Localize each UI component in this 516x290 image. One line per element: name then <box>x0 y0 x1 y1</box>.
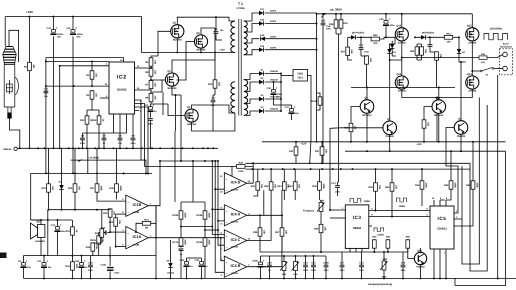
junction <box>45 85 47 87</box>
electrolytic capacitor C20 <box>180 258 194 268</box>
wire Q11 collector <box>420 248 422 252</box>
wire IC4A in+ <box>212 161 224 209</box>
wire vertical x160 <box>156 161 160 206</box>
wire IC2 pin 1 <box>46 61 109 63</box>
wire R52 leads <box>375 169 377 210</box>
junction <box>262 168 264 170</box>
junction <box>96 172 98 174</box>
wire Q4 gate <box>168 104 185 116</box>
junction <box>252 162 254 164</box>
junction <box>211 160 213 162</box>
wire R32 leads <box>71 220 73 256</box>
electrolytic capacitor C13 <box>51 223 66 233</box>
junction <box>170 277 172 279</box>
wire link rail y252 <box>260 251 408 253</box>
wire <box>180 251 182 279</box>
wire IC3 bottom pins <box>350 248 362 252</box>
wire link rail y256 <box>261 255 327 257</box>
wire D6 leads <box>170 240 172 278</box>
square wave symbol mains <box>484 34 507 40</box>
junction <box>313 277 315 279</box>
wire mid rail B <box>262 141 506 143</box>
junction <box>45 172 47 174</box>
junction <box>280 81 282 83</box>
svg-text:IC4 A: IC4 A <box>231 213 241 217</box>
wire mid rail C <box>345 150 506 152</box>
wire VR2 leads <box>383 252 385 278</box>
capacitor C <box>428 45 433 47</box>
junction <box>103 147 105 149</box>
junction <box>282 168 284 170</box>
junction <box>72 147 74 149</box>
svg-text:100: 100 <box>447 41 452 44</box>
junction <box>116 172 118 174</box>
junction <box>387 251 389 253</box>
wire C28 leads <box>90 256 92 279</box>
resistor R21b <box>90 236 104 244</box>
square wave symbol 100Hz <box>350 199 361 203</box>
resistor R13 <box>92 116 104 124</box>
resistor R29 <box>314 224 326 232</box>
wire divider top link <box>181 201 205 203</box>
svg-text:10k: 10k <box>113 211 116 216</box>
svg-text:CD4013: CD4013 <box>437 228 447 231</box>
svg-text:R14: R14 <box>144 219 149 222</box>
diode D16 <box>259 21 264 25</box>
svg-text:100k: 100k <box>207 212 210 218</box>
resistor R31 <box>289 147 298 155</box>
svg-text:10k: 10k <box>118 220 121 225</box>
svg-text:+: + <box>26 259 28 263</box>
wire IC4C out <box>247 190 271 240</box>
wire <box>204 219 206 238</box>
junction <box>43 255 45 257</box>
wire bottom ground rail <box>24 277 516 279</box>
junction <box>74 172 76 174</box>
junction <box>37 147 39 149</box>
svg-text:C13: C13 <box>51 224 56 227</box>
svg-text:1N4148: 1N4148 <box>270 108 278 111</box>
wire P2 leads <box>295 256 297 278</box>
wire R48 leads <box>373 239 375 252</box>
capacitor C9 <box>211 96 216 107</box>
resistor R19 <box>103 209 115 217</box>
wire to D17 <box>244 13 260 21</box>
junction <box>180 160 182 162</box>
junction <box>471 70 473 72</box>
svg-text:D9 PR150A: D9 PR150A <box>422 32 435 35</box>
resistor R40 <box>371 34 379 45</box>
wire R16 leads <box>74 148 76 209</box>
wire C17 to rail <box>341 252 343 256</box>
wire IC1B in- <box>116 213 126 215</box>
svg-text:C24b: C24b <box>101 263 107 266</box>
wire Q10 collector <box>438 88 440 100</box>
junction <box>293 168 295 170</box>
wire Q11 base <box>408 248 415 258</box>
svg-text:400V: 400V <box>326 28 331 31</box>
wire IC4B in- <box>215 189 224 272</box>
junction <box>375 210 377 212</box>
wire R32b leads <box>317 93 320 110</box>
svg-text:230V/50Hz: 230V/50Hz <box>490 28 504 31</box>
wire right bus 2 <box>470 105 487 271</box>
capacitor C8 <box>131 134 137 145</box>
junction <box>186 277 188 279</box>
wire C17 leads <box>341 256 343 278</box>
svg-text:100: 100 <box>153 96 156 101</box>
wire R17 leads <box>96 148 98 199</box>
wire long vertical x60 <box>59 66 61 149</box>
svg-text:10k: 10k <box>426 122 429 127</box>
svg-text:R16b: R16b <box>173 214 179 217</box>
junction <box>321 168 323 170</box>
switch S1 <box>480 70 482 72</box>
junction <box>192 147 194 149</box>
svg-text:47k: 47k <box>75 264 78 269</box>
wire +12V to control rail <box>310 140 311 163</box>
comparator IC4A <box>224 205 246 226</box>
wire R49 leads <box>387 239 389 252</box>
svg-text:+12V: +12V <box>26 10 33 14</box>
capacitor C15 <box>311 261 317 272</box>
junction <box>72 16 74 18</box>
svg-text:100: 100 <box>153 70 156 75</box>
junction <box>472 141 474 143</box>
svg-text:R26: R26 <box>253 231 258 234</box>
junction <box>201 277 203 279</box>
wire R53 leads <box>391 169 393 216</box>
svg-text:10k: 10k <box>262 230 265 235</box>
junction <box>68 147 70 149</box>
svg-text:Ausgangsspannung: Ausgangsspannung <box>368 283 393 286</box>
wire R37 leads <box>321 142 323 164</box>
junction <box>82 147 84 149</box>
svg-text:10n: 10n <box>220 29 224 32</box>
wire C16 to rail <box>361 252 363 256</box>
junction <box>147 173 149 175</box>
junction <box>119 147 121 149</box>
junction <box>436 97 438 99</box>
junction <box>113 147 115 149</box>
wire C10 bottom lead <box>53 36 55 149</box>
wire IC3 pin left 2 <box>330 217 345 219</box>
wire C7 top lead <box>215 17 217 31</box>
svg-text:R16: R16 <box>68 187 73 190</box>
wire R45 leads <box>454 142 473 226</box>
wire output node L <box>402 57 479 59</box>
PWM controller IC2 SG3525 <box>109 62 135 114</box>
svg-text:R21b: R21b <box>90 239 96 242</box>
resistor R37 <box>315 147 327 155</box>
svg-text:1N4148: 1N4148 <box>270 70 278 73</box>
wire R15 leads <box>48 148 50 209</box>
junction <box>340 168 342 170</box>
junction <box>159 160 161 162</box>
svg-text:310F4: 310F4 <box>270 10 277 13</box>
wire Q10 base <box>424 107 432 120</box>
diode D9 <box>421 35 426 39</box>
resistor R21 <box>251 182 263 190</box>
wire C13 leads <box>305 256 307 278</box>
junction <box>175 94 177 96</box>
wire D7 leads <box>61 148 63 209</box>
wire Q4 source return <box>192 113 235 131</box>
junction <box>445 277 447 279</box>
junction <box>351 168 353 170</box>
wire cap leads <box>430 37 437 52</box>
svg-text:R20: R20 <box>109 221 114 224</box>
wire R33 leads <box>71 256 73 279</box>
diode D17 <box>259 11 264 15</box>
wire R6 net <box>151 68 160 80</box>
svg-text:+: + <box>204 258 206 262</box>
transistor Q13 <box>395 25 408 45</box>
flip-flop IC5 CD4013 <box>430 206 454 249</box>
wire control rail Bb <box>246 168 471 170</box>
svg-text:R47: R47 <box>341 50 346 53</box>
wire C7 bottom lead <box>216 34 222 40</box>
wire to socket pin 1 <box>487 55 503 58</box>
junction <box>132 147 134 149</box>
electrolytic capacitor C27 <box>285 105 300 115</box>
svg-text:R42: R42 <box>410 50 415 53</box>
wire R2 bottom lead <box>29 71 31 149</box>
junction <box>215 16 217 18</box>
junction <box>316 38 318 40</box>
junction <box>458 36 460 38</box>
wire IC1A out long <box>148 237 224 239</box>
svg-text:100n: 100n <box>364 51 369 54</box>
svg-text:10k: 10k <box>95 245 98 250</box>
trimmer VR2 <box>380 258 388 270</box>
wire IC4C in+ <box>212 209 224 234</box>
junction <box>211 226 213 228</box>
capacitor C7 <box>214 28 219 33</box>
resistor R53 <box>385 183 397 191</box>
capacitor C3 <box>80 134 86 145</box>
junction <box>78 147 80 149</box>
svg-text:100u: 100u <box>390 24 396 27</box>
wire ref leader <box>78 160 82 162</box>
wire C30 leads <box>274 82 282 105</box>
wire R40 out <box>380 37 396 39</box>
wire VR1 leads <box>320 200 322 224</box>
svg-text:10u: 10u <box>27 266 31 269</box>
resistor R24 <box>288 182 300 190</box>
svg-text:10k: 10k <box>94 93 97 98</box>
resistor R47 <box>341 47 353 55</box>
capacitor C31 <box>44 87 49 98</box>
wire down <box>109 247 111 266</box>
wire C10 top lead <box>53 17 55 30</box>
svg-text:1N4148: 1N4148 <box>167 272 175 275</box>
svg-text:R21: R21 <box>251 185 256 188</box>
svg-text:Q11: Q11 <box>417 249 422 252</box>
svg-text:IC4 B: IC4 B <box>231 264 241 268</box>
junction <box>19 147 21 149</box>
svg-text:R31: R31 <box>289 150 294 153</box>
junction <box>91 85 93 87</box>
svg-text:10k: 10k <box>274 184 277 189</box>
wire R5 net <box>147 56 158 68</box>
wire IC4C in- <box>218 221 224 245</box>
comparator IC4C <box>224 230 246 251</box>
capacitor C28 <box>88 261 94 272</box>
svg-text:R44: R44 <box>444 184 449 187</box>
capacitor C16b <box>178 245 184 256</box>
wire zener to Q15 gate <box>459 37 466 62</box>
svg-text:R18: R18 <box>110 187 115 190</box>
svg-text:R33: R33 <box>65 265 70 268</box>
resistor R <box>420 47 427 55</box>
junction <box>310 168 312 170</box>
electrolytic capacitor C29 <box>75 259 89 269</box>
wire Q9 collector <box>460 62 462 121</box>
junction <box>373 251 375 253</box>
wire rail y220 <box>31 219 73 221</box>
wire to D3 <box>244 111 260 115</box>
trimmer P1 <box>280 262 287 271</box>
wire IC2 aux pins <box>135 100 140 111</box>
junction <box>207 147 209 149</box>
wire rectifier outputs <box>265 13 317 50</box>
wire to IC4D in+ <box>224 166 232 177</box>
wire tap 1 <box>181 226 212 228</box>
wire SU1 top <box>31 220 41 225</box>
wire input header <box>160 160 218 162</box>
svg-text:VR1: VR1 <box>320 199 325 202</box>
wire IC5 out 1 drive <box>446 160 458 213</box>
zener diode <box>457 49 461 54</box>
svg-text:+: + <box>153 103 155 107</box>
wire vertical x181 <box>180 131 182 161</box>
transistor Q2 BUK455 <box>194 32 207 52</box>
svg-text:R13: R13 <box>92 119 97 122</box>
wire C13 leads <box>57 220 59 256</box>
junction <box>361 277 363 279</box>
junction <box>123 173 125 175</box>
wire vertical x88 <box>87 149 89 174</box>
junction <box>155 237 157 239</box>
svg-text:C22: C22 <box>195 259 200 262</box>
junction <box>391 216 393 218</box>
junction <box>438 141 440 143</box>
wire R19 leads <box>109 209 111 232</box>
wire Q8 collector <box>366 88 368 100</box>
svg-text:C10: C10 <box>47 27 52 30</box>
svg-text:10k: 10k <box>369 58 372 63</box>
junction <box>217 160 219 162</box>
wire LV bus <box>265 74 281 112</box>
svg-text:10k: 10k <box>424 49 427 54</box>
wire left drop <box>30 173 32 220</box>
svg-text:IC2: IC2 <box>117 75 127 81</box>
comparator IC4B <box>224 256 246 277</box>
wire ground rail Masse <box>17 147 218 149</box>
terminal Masse <box>14 147 17 150</box>
junction <box>360 36 362 38</box>
svg-text:10k: 10k <box>378 185 381 190</box>
transistor Q15 <box>466 25 479 45</box>
svg-text:IC1B: IC1B <box>133 203 142 207</box>
svg-text:R18b: R18b <box>197 214 203 217</box>
svg-text:100n: 100n <box>114 271 120 274</box>
junction <box>94 147 96 149</box>
svg-text:NE556: NE556 <box>353 227 362 230</box>
svg-text:GR8: GR8 <box>298 72 304 75</box>
svg-text:100: 100 <box>153 83 156 88</box>
junction <box>214 160 216 162</box>
Euro-Steckdose outlet <box>499 42 512 74</box>
junction <box>280 73 282 75</box>
wire R29 lead <box>320 233 322 252</box>
junction <box>48 172 50 174</box>
wire cap row link <box>83 132 127 134</box>
junction <box>109 277 111 279</box>
wire Q13 drain <box>401 14 403 28</box>
capacitor C13 <box>303 261 309 272</box>
junction <box>283 277 285 279</box>
junction <box>86 147 88 149</box>
svg-text:100Hz: 100Hz <box>364 200 371 203</box>
junction <box>433 277 435 279</box>
junction <box>59 147 61 149</box>
svg-text:C26: C26 <box>379 18 384 21</box>
svg-text:10u: 10u <box>295 112 299 115</box>
svg-text:25V: 25V <box>77 35 81 38</box>
wire R23 leads <box>283 169 285 200</box>
resistor R3 <box>86 71 97 79</box>
diode D18 <box>261 37 266 41</box>
junction <box>53 147 55 149</box>
wire cap to ground <box>150 120 152 147</box>
wire vertical x156 <box>155 206 157 279</box>
junction <box>45 61 47 63</box>
wire long bus x338 <box>338 34 339 185</box>
svg-text:310F4: 310F4 <box>270 35 277 38</box>
wire Q2 source <box>200 48 202 52</box>
svg-text:+: + <box>84 259 86 263</box>
wire IC1B out <box>148 206 156 220</box>
svg-text:R17b: R17b <box>173 241 179 244</box>
svg-text:10k: 10k <box>77 186 80 191</box>
wire R2 top lead <box>29 17 31 63</box>
junction <box>332 168 334 170</box>
svg-text:R24: R24 <box>288 185 293 188</box>
wire HV lower stub <box>316 50 318 142</box>
junction <box>29 16 31 18</box>
wire rail y173 <box>31 173 152 175</box>
svg-text:100: 100 <box>153 60 156 65</box>
junction <box>423 141 425 143</box>
comparator IC4D <box>224 173 246 194</box>
svg-text:10k: 10k <box>284 230 287 235</box>
junction <box>414 36 416 38</box>
svg-text:R34: R34 <box>95 232 100 235</box>
capacitor C <box>148 119 154 126</box>
wire right leg <box>471 41 473 76</box>
svg-text:T 1: T 1 <box>238 2 243 6</box>
transistor Q4 BUK455 <box>185 106 198 126</box>
wire Q8 base <box>351 107 360 124</box>
junction <box>375 168 377 170</box>
wire IC2 bottom pins <box>114 114 127 133</box>
junction <box>321 141 323 143</box>
junction <box>40 219 42 221</box>
svg-text:100k: 100k <box>183 239 186 245</box>
svg-text:R17: R17 <box>90 187 95 190</box>
